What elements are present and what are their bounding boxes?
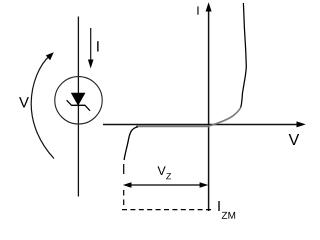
label V (axis): [289, 134, 300, 145]
I axis (vertical): [206, 2, 212, 211]
dashed horizontal line (at -Izm): [122, 209, 212, 211]
label Izm - I: [218, 201, 219, 211]
label Izm - M subscript: [228, 212, 235, 219]
curve: forward steep: [241, 3, 247, 108]
label I (axis): [197, 6, 198, 14]
label V (source voltage): [19, 97, 29, 107]
label Izm - Z subscript: [222, 212, 227, 219]
label I (current): [97, 41, 98, 51]
V axis (horizontal): [103, 121, 306, 127]
curve: reverse leakage (flat, gray): [136, 125, 209, 127]
curve: zener breakdown knee: [124, 127, 138, 160]
curve: forward shallow (gray): [209, 108, 241, 127]
voltage arc V: [31, 52, 54, 158]
label Vz - V: [157, 166, 165, 175]
zener diode D1 (circled symbol): [55, 77, 102, 124]
current arrow I: [88, 28, 94, 69]
Vz double arrow: [123, 182, 209, 188]
dashed vertical line (at -Vz): [123, 164, 125, 210]
label Vz - Z subscript: [166, 173, 171, 179]
wire (zener vertical leads): [77, 17, 79, 197]
